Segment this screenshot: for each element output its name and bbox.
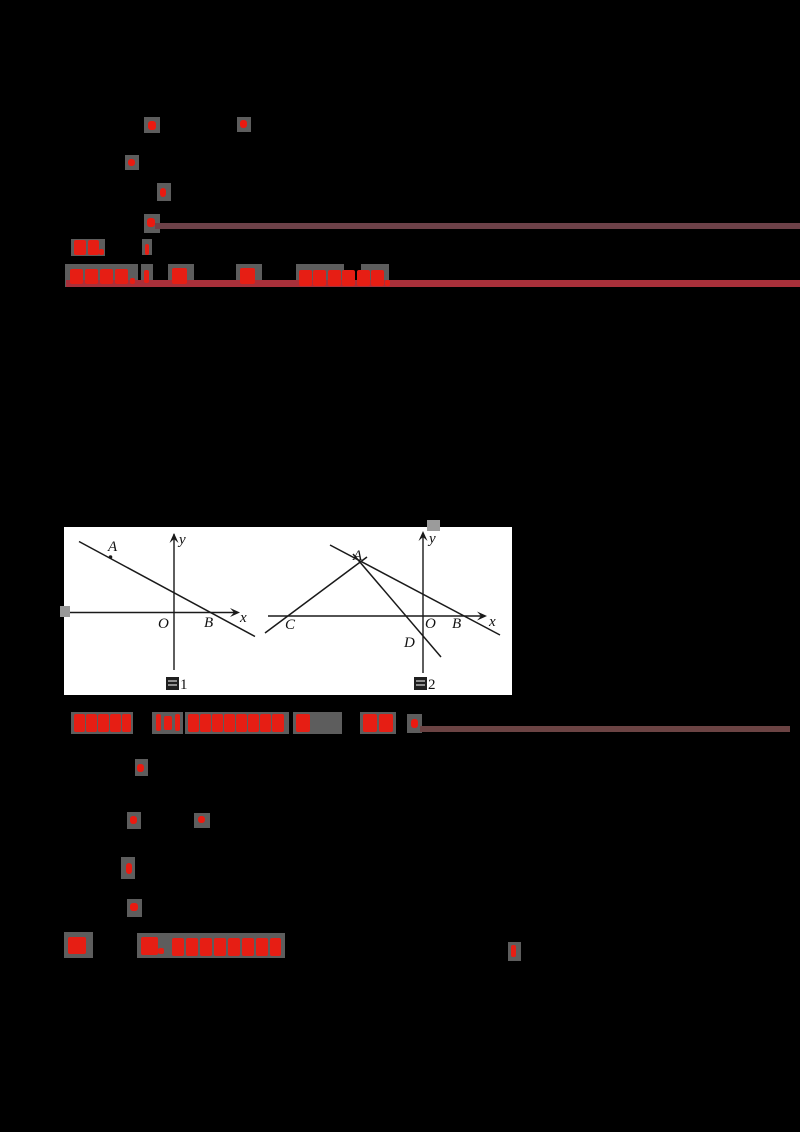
svg-text:A: A (352, 548, 363, 564)
figure image with graphs (64, 527, 512, 695)
svg-text:O: O (158, 616, 169, 632)
red answer row 1 text (74, 240, 86, 255)
graph 1 x-axis (67, 612, 238, 614)
red answer row 4 text (68, 937, 86, 954)
answer marker dot 6 (135, 759, 148, 776)
svg-text:B: B (452, 616, 461, 632)
answer marker dot 2 (237, 117, 251, 132)
svg-text:C: C (285, 617, 296, 633)
red answer row 2 highlights (65, 264, 138, 287)
graph 2 x-axis (268, 615, 485, 617)
graph 2 caption 图2 (414, 677, 427, 690)
maroon underline 3 (420, 726, 790, 732)
answer marker dot 5 (144, 214, 160, 233)
answer marker dot 7 (127, 812, 141, 829)
svg-text:x: x (239, 610, 247, 626)
answer marker dot 8 (194, 813, 210, 828)
graph 1 point A (109, 555, 113, 559)
graph 2 y-axis (422, 533, 424, 673)
svg-text:y: y (177, 532, 186, 548)
graph 2 line CA (265, 557, 367, 633)
gray smudge above graph 2 y axis (427, 520, 440, 531)
graph 1 line AB (79, 542, 255, 637)
graph 1 y-axis (173, 534, 175, 670)
red answer row 2 text (70, 269, 83, 284)
svg-text:x: x (488, 614, 496, 630)
graph 1 caption 图1 (166, 677, 179, 690)
answer marker dot 3 (125, 155, 139, 170)
svg-text:B: B (204, 615, 213, 631)
svg-text:D: D (403, 635, 415, 651)
svg-text:y: y (427, 531, 436, 547)
svg-text:2: 2 (428, 677, 436, 693)
answer marker dot 9 (121, 857, 135, 879)
red answer row 1 highlight (71, 239, 105, 256)
svg-text:O: O (425, 616, 436, 632)
answer marker dot 1 (144, 117, 160, 133)
answer marker dot 4 (157, 183, 171, 201)
graph 2 line AB (330, 545, 500, 635)
red underline 2 (66, 280, 800, 287)
gray square at left edge of figure (60, 606, 70, 617)
graph 2 line AD (353, 554, 441, 657)
svg-text:A: A (107, 539, 118, 555)
red answer row 3 highlights (71, 712, 133, 734)
maroon underline 1 (155, 223, 800, 229)
answer marker dot 10 (127, 899, 142, 917)
red answer row 4 highlights (64, 932, 93, 958)
red answer row 3 text (74, 714, 85, 732)
svg-text:1: 1 (180, 677, 188, 693)
